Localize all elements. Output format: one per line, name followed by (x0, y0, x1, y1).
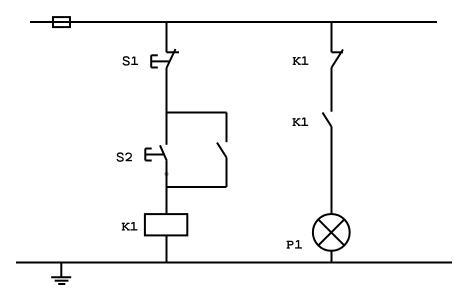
wire left branch top (166, 22, 168, 52)
node junction blob (164, 172, 168, 176)
ground (51, 263, 71, 285)
wire right branch top (331, 22, 333, 52)
label K1 contact2 (293, 118, 309, 126)
label S2 (117, 153, 132, 161)
pushbutton S1 (NC) (151, 49, 179, 68)
wire K1 contact2 to lamp (331, 127, 333, 214)
pushbutton S2 (NO) (145, 145, 167, 161)
lamp P1 (313, 214, 350, 251)
coil K1 (145, 214, 187, 235)
wire between K1 contacts (331, 68, 333, 112)
wire parallel loop right lower (226, 158, 228, 188)
label K1 contact1 (293, 57, 309, 65)
wire top rail L1 (30, 21, 437, 23)
contact K1 holding (NO) (217, 143, 227, 158)
label S1 (123, 57, 138, 65)
fuse F1 (53, 17, 70, 27)
wire parallel loop top (167, 112, 227, 114)
wire coil to bottom rail (166, 235, 168, 263)
wire S2 to coil (166, 161, 168, 214)
contact K1 second (NO) (323, 113, 332, 127)
contact K1 first (NC) (332, 50, 344, 68)
wire S1 to S2 (166, 68, 168, 145)
wire lamp to bottom rail (331, 251, 333, 263)
wire bottom rail N (16, 262, 452, 264)
wire parallel loop bottom (167, 186, 227, 188)
label P1 (287, 240, 302, 248)
wire parallel loop right upper (226, 113, 228, 143)
label K1 coil (122, 222, 138, 230)
